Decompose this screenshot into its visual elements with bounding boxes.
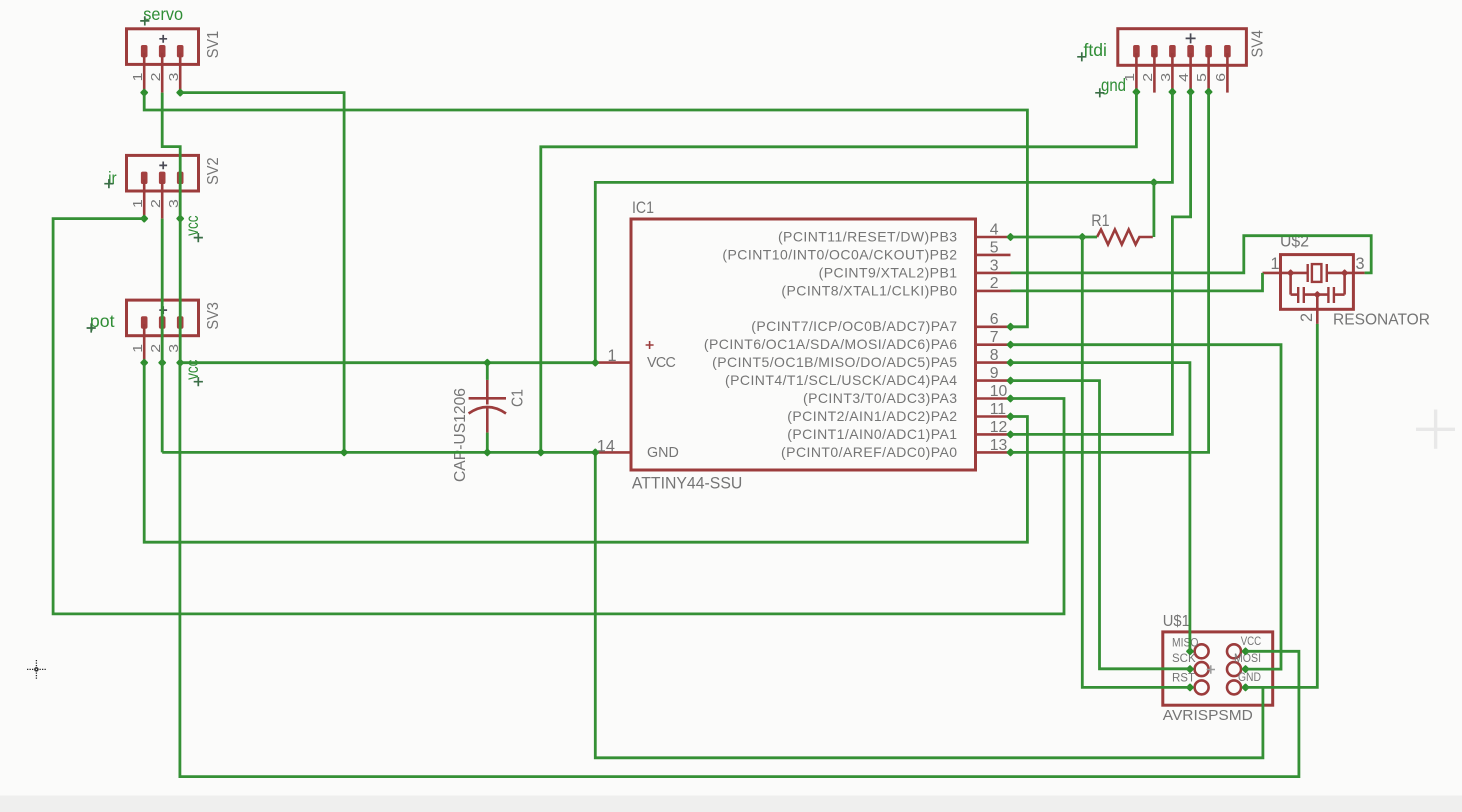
svg-text:(PCINT10/INT0/OC0A/CKOUT)PB2: (PCINT10/INT0/OC0A/CKOUT)PB2 — [722, 246, 957, 262]
wire vcc riser to SV4 pin3 — [595, 92, 1172, 363]
junction SV2 pin1 — [140, 214, 149, 223]
svg-text:VCC: VCC — [1241, 636, 1262, 648]
wire xtal1 IC pin2 to resonator pin1 — [1011, 273, 1263, 291]
svg-text:2: 2 — [148, 73, 163, 82]
wire gnd column SV2 pin2 SV3 pin2 — [161, 219, 164, 453]
svg-text:(PCINT6/OC1A/SDA/MOSI/ADC6)PA6: (PCINT6/OC1A/SDA/MOSI/ADC6)PA6 — [704, 336, 958, 352]
svg-text:12: 12 — [990, 419, 1008, 436]
wire ftdi pin4 to IC pin12 PA1 — [1011, 92, 1191, 435]
pin 10 stub — [976, 397, 1011, 400]
wire vcc bottom route to ISP VCC — [180, 363, 1299, 777]
wire reset riser to ISP RST — [1082, 237, 1190, 687]
pin 7 stub — [976, 343, 1011, 346]
wire gnd rail to IC GND pin — [162, 451, 595, 454]
svg-text:14: 14 — [597, 437, 615, 455]
wire servo signal SV1 pin1 to IC pin6 PA7 — [144, 93, 1027, 327]
svg-text:(PCINT8/XTAL1/CLKI)PB0: (PCINT8/XTAL1/CLKI)PB0 — [781, 282, 957, 298]
svg-text:(PCINT5/OC1B/MISO/DO/ADC5)PA5: (PCINT5/OC1B/MISO/DO/ADC5)PA5 — [712, 354, 957, 370]
connector SV1 servo header — [127, 29, 199, 65]
connector SV3 pot header — [127, 300, 199, 336]
junction vcc at C1 — [483, 358, 492, 367]
wire servo plus to vcc column — [162, 93, 180, 363]
resonator U$2 — [1281, 255, 1354, 310]
junction IC pin 11 — [1006, 412, 1015, 421]
wire ir signal SV2 pin1 to IC pin10 PA3 — [53, 219, 1064, 614]
wire ftdi pin5 to IC pin13 PA0 — [1011, 92, 1209, 453]
junction SV4 pin4 — [1186, 88, 1195, 97]
junction IC pin 7 — [1006, 340, 1015, 349]
svg-text:(PCINT11/RESET/DW)PB3: (PCINT11/RESET/DW)PB3 — [778, 229, 958, 245]
svg-text:CAP-US1206: CAP-US1206 — [452, 388, 469, 482]
svg-text:1: 1 — [130, 344, 145, 353]
svg-text:MISO: MISO — [1172, 638, 1198, 650]
svg-text:2: 2 — [148, 199, 163, 208]
pin 6 stub — [976, 325, 1011, 328]
svg-text:SV2: SV2 — [205, 157, 222, 185]
origin cross pot — [87, 323, 96, 332]
wire gnd SV4 pin1 down and across — [541, 92, 1137, 453]
wire reset net IC pin4 to R1 — [1011, 236, 1098, 239]
junction isp right 669 — [1241, 665, 1250, 674]
pin 12 stub — [976, 433, 1011, 436]
svg-text:2: 2 — [1140, 73, 1155, 82]
svg-text:ftdi: ftdi — [1084, 40, 1107, 60]
wire gnd ISP GND to resonator pin2 — [1246, 324, 1318, 688]
pin 4 stub — [976, 236, 1011, 239]
svg-text:1: 1 — [130, 73, 145, 82]
junction isp left 651 — [1186, 647, 1195, 656]
svg-text:10: 10 — [990, 383, 1008, 400]
junction SV4 pin1 — [1132, 88, 1141, 97]
junction IC pin 10 — [1006, 394, 1015, 403]
wire miso IC pin8 to ISP MISO — [1011, 363, 1190, 652]
svg-text:13: 13 — [990, 437, 1008, 454]
junction R1 left — [1078, 233, 1087, 242]
svg-text:(PCINT3/T0/ADC3)PA3: (PCINT3/T0/ADC3)PA3 — [803, 390, 958, 406]
svg-text:1: 1 — [130, 199, 145, 208]
wire xtal2 IC pin3 to resonator pin3 — [1011, 236, 1372, 273]
junction SV3 pin3 — [176, 358, 185, 367]
svg-text:5: 5 — [990, 239, 999, 256]
wire sck IC pin9 to ISP SCK — [1011, 381, 1191, 669]
junction gnd at SV4 drop — [536, 448, 545, 457]
junction SV2 pin3 — [176, 214, 185, 223]
connector SV2 ir header — [127, 155, 199, 191]
svg-text:(PCINT2/AIN1/ADC2)PA2: (PCINT2/AIN1/ADC2)PA2 — [787, 408, 957, 424]
svg-text:RESONATOR: RESONATOR — [1333, 312, 1430, 329]
svg-text:8: 8 — [990, 347, 999, 364]
svg-text:U$1: U$1 — [1163, 613, 1190, 630]
junction gnd at C1 — [483, 448, 492, 457]
junction vcc at IC pin1 — [591, 358, 600, 367]
svg-text:11: 11 — [990, 401, 1007, 418]
pin 3 stub — [976, 272, 1011, 275]
capacitor C1 — [486, 380, 489, 405]
junction gnd at IC pin14 — [591, 448, 600, 457]
junction isp left 687 — [1186, 683, 1195, 692]
svg-text:RST: RST — [1172, 673, 1195, 685]
svg-text:(PCINT9/XTAL2)PB1: (PCINT9/XTAL2)PB1 — [819, 264, 958, 280]
svg-text:(PCINT4/T1/SCL/USCK/ADC4)PA4: (PCINT4/T1/SCL/USCK/ADC4)PA4 — [725, 372, 958, 388]
svg-text:AVRISPSMD: AVRISPSMD — [1163, 708, 1253, 724]
origin cross ir — [104, 179, 113, 188]
svg-text:4: 4 — [990, 221, 999, 238]
junction isp left 669 — [1186, 665, 1195, 674]
svg-text:GND: GND — [647, 445, 679, 461]
pin 11 stub — [976, 415, 1011, 418]
svg-text:VCC: VCC — [647, 355, 675, 371]
junction IC pin 4 — [1006, 233, 1015, 242]
junction SV3 pin1 — [140, 358, 149, 367]
svg-text:GND: GND — [1238, 672, 1261, 684]
svg-text:(PCINT7/ICP/OC0B/ADC7)PA7: (PCINT7/ICP/OC0B/ADC7)PA7 — [751, 318, 957, 334]
resistor R1 — [1097, 230, 1153, 245]
svg-text:1: 1 — [608, 347, 617, 365]
origin cross vcc sv3 — [194, 377, 203, 386]
svg-text:MOSI: MOSI — [1234, 653, 1261, 665]
wire vcc branch to R1 right — [1153, 182, 1156, 237]
pin 14 GND stub — [595, 451, 631, 454]
junction isp right 651 — [1241, 647, 1250, 656]
svg-text:2: 2 — [148, 344, 163, 353]
junction IC pin 6 — [1006, 322, 1015, 331]
origin cross gnd — [1095, 88, 1104, 97]
svg-text:3: 3 — [166, 73, 181, 82]
origin cross vcc sv2 — [194, 233, 203, 242]
pin 1 VCC stub — [595, 361, 631, 364]
junction IC pin 13 — [1006, 448, 1015, 457]
svg-text:vcc: vcc — [182, 215, 202, 235]
isp header U$1 — [1163, 632, 1273, 705]
wire servo gnd SV1 pin3 down to gnd rail — [180, 93, 344, 453]
u$1 origin cross — [1207, 665, 1215, 673]
ic IC1 ATTINY44-SSU box — [631, 219, 976, 470]
svg-text:ATTINY44-SSU: ATTINY44-SSU — [632, 475, 742, 493]
svg-text:R1: R1 — [1091, 211, 1109, 230]
pin 5 stub — [976, 254, 1011, 257]
svg-text:SV1: SV1 — [205, 31, 222, 59]
connector SV4 ftdi header — [1118, 29, 1247, 66]
origin cross ftdi — [1077, 52, 1086, 61]
svg-text:3: 3 — [1158, 73, 1173, 82]
origin cross servo — [140, 16, 149, 25]
svg-text:C1: C1 — [510, 389, 527, 407]
svg-text:gnd: gnd — [1101, 75, 1126, 95]
junction SV4 pin5 — [1204, 88, 1213, 97]
svg-text:(PCINT0/AREF/ADC0)PA0: (PCINT0/AREF/ADC0)PA0 — [781, 444, 957, 460]
svg-text:3: 3 — [1356, 255, 1365, 273]
svg-text:2: 2 — [990, 275, 999, 292]
svg-text:3: 3 — [990, 257, 999, 274]
svg-text:6: 6 — [1213, 73, 1228, 82]
junction R1 right top — [1150, 178, 1159, 187]
svg-text:9: 9 — [990, 365, 999, 382]
svg-text:1: 1 — [1271, 255, 1280, 273]
svg-text:2: 2 — [1298, 313, 1316, 322]
vcc plus mark — [646, 341, 654, 349]
junction isp right 687 — [1241, 683, 1250, 692]
junction SV4 pin3 — [1168, 88, 1177, 97]
origin marker — [1416, 410, 1455, 449]
bottom scrollbar strip — [0, 796, 1462, 812]
svg-text:4: 4 — [1176, 73, 1191, 82]
pin 9 stub — [976, 379, 1011, 382]
junction IC pin 8 — [1006, 358, 1015, 367]
pin 8 stub — [976, 361, 1011, 364]
svg-text:SV3: SV3 — [205, 302, 222, 330]
wire mosi IC pin7 to ISP MOSI — [1011, 345, 1282, 669]
svg-text:SV4: SV4 — [1249, 30, 1266, 58]
wire C1 top lead — [486, 363, 489, 380]
wire gnd bottom route to ISP — [595, 452, 1263, 757]
svg-text:IC1: IC1 — [632, 198, 654, 217]
svg-text:6: 6 — [990, 311, 999, 328]
junction IC pin 9 — [1006, 376, 1015, 385]
cursor crosshair — [27, 660, 46, 679]
svg-text:(PCINT1/AIN0/ADC1)PA1: (PCINT1/AIN0/ADC1)PA1 — [787, 426, 957, 442]
wire vcc rail to IC VCC pin — [180, 361, 595, 364]
junction SV1 pin3 — [176, 88, 185, 97]
svg-text:5: 5 — [1194, 73, 1209, 82]
junction SV1 pin1 — [140, 88, 149, 97]
svg-text:SCK: SCK — [1172, 653, 1196, 665]
pin 2 stub — [976, 290, 1011, 293]
junction SV3 pin2 — [158, 358, 167, 367]
junction IC pin 12 — [1006, 430, 1015, 439]
junction gnd at SV1 pin3 drop — [340, 448, 349, 457]
wire pot signal SV3 pin1 to IC pin11 PA2 — [144, 363, 1027, 543]
pin 13 stub — [976, 451, 1011, 454]
svg-text:3: 3 — [166, 199, 181, 208]
wire C1 bottom lead — [486, 433, 489, 453]
svg-text:3: 3 — [166, 344, 181, 353]
svg-text:7: 7 — [990, 329, 999, 346]
